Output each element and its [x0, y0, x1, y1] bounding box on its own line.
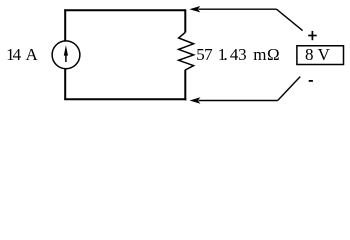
resistor R1 zigzag	[179, 32, 194, 70]
current source I1 arrow	[64, 45, 68, 62]
wire bottom side	[64, 98, 186, 100]
label 8 V	[305, 45, 331, 64]
svg-text:3: 3	[238, 45, 247, 64]
wire left side upper	[64, 9, 66, 40]
svg-text:m: m	[253, 45, 266, 64]
wire right side lower	[184, 70, 186, 101]
svg-text:.: .	[224, 45, 228, 64]
top annotation wire horizontal	[199, 8, 277, 10]
wire top side	[64, 9, 185, 11]
voltage source box 8 V	[297, 46, 344, 65]
label 14 A	[6, 45, 38, 64]
top annotation wire diagonal	[277, 9, 303, 30]
bottom annotation wire horizontal	[199, 100, 278, 102]
plus polarity mark	[308, 31, 317, 40]
wire left side lower	[64, 69, 66, 99]
svg-text:8: 8	[305, 45, 314, 64]
svg-text:A: A	[26, 45, 39, 64]
bottom annotation wire diagonal	[278, 77, 300, 101]
wire right side upper	[184, 9, 186, 32]
svg-text:4: 4	[13, 45, 22, 64]
bottom annotation arrowhead	[190, 97, 201, 103]
svg-text:Ω: Ω	[267, 45, 280, 64]
svg-text:V: V	[318, 45, 331, 64]
svg-text:7: 7	[204, 45, 213, 64]
minus polarity mark	[309, 80, 313, 82]
current source I1 circle	[52, 41, 80, 69]
label 571.43 mOhm	[196, 45, 279, 64]
top annotation arrowhead	[189, 6, 200, 12]
